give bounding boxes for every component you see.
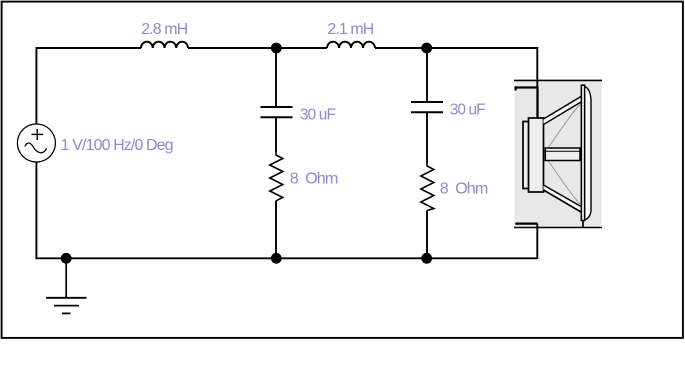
wire R1 to bottom rail	[275, 201, 277, 259]
speaker LS1 magnet back plate	[523, 122, 530, 189]
speaker LS1 bottom terminal bracket	[515, 222, 537, 224]
ground junction dot	[61, 253, 72, 264]
svg-text:2.8 mH: 2.8 mH	[141, 21, 187, 38]
svg-text:30 uF: 30 uF	[450, 101, 486, 118]
label L2 value 2.1 mH	[327, 21, 373, 38]
speaker LS1 cone bottom curve	[549, 162, 581, 205]
speaker LS1 top terminal bracket	[516, 88, 538, 119]
resistor R1 8 Ohm	[270, 152, 283, 201]
capacitor C1 30 uF	[261, 107, 293, 117]
AC voltage source V1	[17, 124, 55, 162]
node A junction dot	[271, 43, 282, 54]
wire C2 to resistor R2	[426, 112, 428, 163]
wire node B to capacitor C2	[426, 48, 428, 102]
label C2 value 30 uF	[450, 101, 486, 118]
speaker LS1 body box	[514, 80, 602, 228]
wire between L2 and node B	[375, 47, 427, 49]
label R2 value 8 Ohm	[440, 181, 488, 198]
ground symbol	[46, 258, 87, 313]
resistor R2 8 Ohm	[421, 163, 434, 211]
speaker LS1 basket top struts	[544, 97, 582, 125]
svg-text:8 Ohm: 8 Ohm	[440, 181, 488, 198]
wire speaker bottom stub	[536, 224, 538, 259]
wire R2 to bottom rail	[426, 211, 428, 260]
label L1 value 2.8 mH	[141, 21, 187, 38]
capacitor C2 30 uF	[411, 102, 443, 112]
speaker LS1 surround outer edge	[585, 87, 591, 221]
wire top-left horizontal segment	[36, 47, 142, 49]
inductor L1 2.8 mH	[141, 42, 188, 48]
node B junction dot	[421, 43, 432, 54]
speaker LS1 basket bottom struts	[544, 185, 582, 212]
wire between node A and L2	[276, 47, 327, 49]
wire node A to capacitor C1	[275, 48, 277, 107]
svg-text:2.1 mH: 2.1 mH	[327, 21, 373, 38]
inductor L2 2.1 mH	[327, 42, 375, 48]
label V1 value 1 V/100 Hz/0 Deg	[61, 137, 173, 154]
label C1 value 30 uF	[300, 106, 336, 123]
wire source bottom	[35, 162, 37, 259]
wire C1 to resistor R1	[275, 117, 277, 152]
speaker LS1 magnet front	[529, 118, 544, 192]
speaker LS1 voice coil former	[545, 148, 580, 161]
wire source top	[35, 47, 37, 124]
node D junction dot	[421, 253, 432, 264]
wire between L1 and node A	[188, 47, 276, 49]
svg-text:1 V/100 Hz/0 Deg: 1 V/100 Hz/0 Deg	[61, 137, 173, 154]
speaker LS1 front rim	[581, 85, 584, 227]
wire bottom rail	[36, 257, 538, 259]
svg-text:8 Ohm: 8 Ohm	[290, 171, 338, 188]
speaker LS1 cone top curve	[549, 105, 581, 148]
svg-text:30 uF: 30 uF	[300, 106, 336, 123]
label R1 value 8 Ohm	[290, 171, 338, 188]
wire node B to speaker top corner	[427, 48, 537, 88]
node C junction dot	[271, 253, 282, 264]
